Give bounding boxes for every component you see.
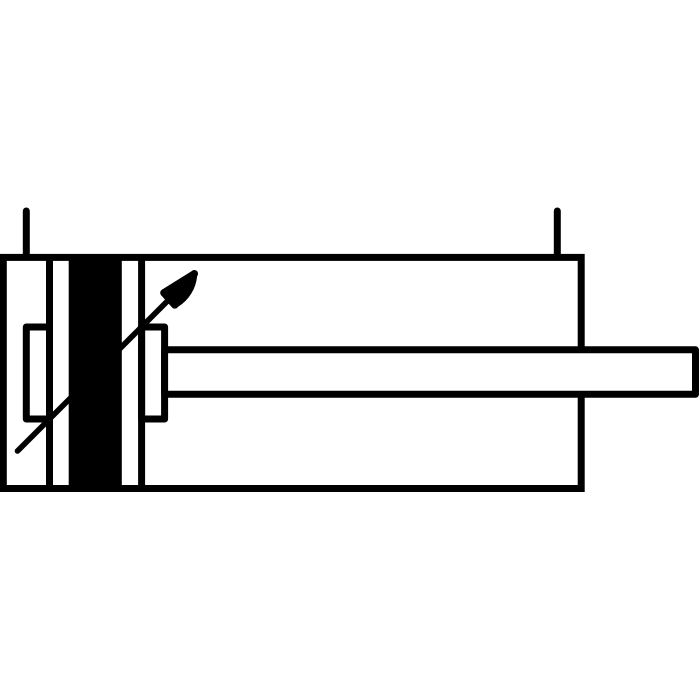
- piston face line L2: [138, 257, 145, 488]
- cushion adjust arrow shaft: [18, 293, 177, 452]
- piston face line L1: [46, 257, 53, 488]
- cylinder barrel: [3, 257, 581, 488]
- piston rod: [165, 350, 696, 395]
- cushion adjust arrow head: [160, 270, 198, 309]
- port stub left: [23, 211, 30, 257]
- cushion rect left: [26, 327, 49, 419]
- port stub right: [554, 211, 561, 257]
- cushion rect right: [142, 327, 165, 419]
- piston seal bar: [69, 255, 122, 490]
